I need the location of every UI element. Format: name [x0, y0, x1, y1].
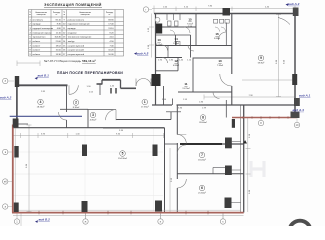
band corridor wall — [116, 119, 171, 121]
svg-text:помещение охраны: помещение охраны — [33, 32, 52, 34]
cluster wall below 13-14 — [156, 45, 232, 47]
door arc room10 — [213, 92, 220, 99]
room 5 label — [118, 151, 127, 160]
left wall vertical dim — [28, 125, 30, 213]
room7 door arc — [177, 145, 186, 154]
grid bubble left 2 — [2, 149, 7, 154]
cluster wall 14/16 divider — [195, 14, 197, 46]
room 12 label — [173, 59, 179, 67]
toilet stall walls room15 — [166, 14, 168, 21]
top wall doorway arc — [68, 85, 70, 94]
entrance lower wall — [121, 87, 137, 89]
svg-text:ж: ж — [85, 221, 87, 224]
cluster right wall — [231, 14, 233, 75]
svg-text:82.10: 82.10 — [56, 19, 62, 21]
entrance double door arcs — [136, 79, 144, 87]
room2 closet partition 2 — [115, 88, 117, 94]
svg-text:7.38м²: 7.38м² — [217, 64, 223, 67]
red left wall — [12, 125, 14, 213]
room9 interior vertical dim — [278, 14, 280, 97]
band door arc room2 — [106, 110, 117, 121]
svg-text:11.10: 11.10 — [56, 32, 62, 34]
room6 closet partition — [213, 167, 227, 169]
band wall 4/2 divider — [66, 85, 68, 112]
svg-text:21.60: 21.60 — [56, 41, 62, 43]
section cut line B — [10, 115, 82, 117]
door arc room13 — [162, 45, 168, 51]
svg-text:техническое помещение: техническое помещение — [68, 37, 93, 39]
svg-text:ПЛАН ПОСЛЕ ПЕРЕПЛАНИРОВКИ: ПЛАН ПОСЛЕ ПЕРЕПЛАНИРОВКИ — [57, 71, 123, 75]
wall between 7 and 6 — [177, 173, 243, 175]
svg-text:помещения: помещения — [37, 14, 46, 16]
band corridor right wall — [170, 112, 172, 120]
svg-text:154.30: 154.30 — [54, 37, 61, 39]
room5 inner top dim line — [103, 128, 164, 130]
svg-text:1: 1 — [144, 100, 146, 104]
band room3 left wall — [87, 109, 89, 127]
cluster shaft wall — [163, 86, 165, 105]
red wall ticks bottom — [39, 211, 208, 215]
faint grid vertical 2 — [153, 129, 155, 211]
svg-text:2: 2 — [75, 101, 77, 105]
room 6 label — [198, 185, 206, 194]
table row lines — [29, 20, 124, 22]
svg-text:торговый зал: торговый зал — [33, 36, 47, 39]
svg-text:9: 9 — [260, 56, 262, 60]
wc fixture 2 — [175, 21, 179, 26]
door arc room14 — [188, 45, 194, 51]
svg-text:помещения: помещения — [81, 14, 90, 16]
svg-text:6.88м²: 6.88м² — [173, 64, 179, 67]
band wall below 4 — [60, 108, 88, 110]
band corridor top stub — [166, 111, 181, 113]
svg-text:вид А.2: вид А.2 — [0, 96, 12, 100]
room 4 label — [37, 99, 45, 108]
room 1 label — [141, 99, 149, 108]
svg-text:г: г — [146, 9, 147, 12]
door arc room15 — [184, 27, 190, 33]
cluster wall 10 left — [192, 58, 194, 93]
cluster wall below 15 — [156, 26, 197, 28]
svg-text:18.20м²: 18.20м² — [198, 159, 206, 162]
faint floor line 3 — [14, 195, 164, 197]
room 13 label — [156, 38, 162, 46]
svg-text:вестибюль: вестибюль — [33, 19, 43, 21]
svg-text:3: 3 — [92, 113, 94, 117]
room 8 label — [199, 115, 207, 124]
room2 inner wall vertical — [99, 84, 101, 95]
grid bubble bottom 3 — [158, 219, 163, 224]
rooms 6-8 left wall — [176, 105, 178, 135]
column left wall middle — [14, 146, 18, 158]
top wall — [154, 13, 295, 15]
table outer border — [29, 10, 124, 57]
column right wall mid — [292, 74, 297, 85]
top wall right of doorway — [97, 83, 103, 85]
door arc room12 — [162, 58, 168, 64]
svg-text:12: 12 — [174, 59, 178, 63]
svg-text:рабочая комната: рабочая комната — [68, 19, 85, 21]
column room5 mid row1 right — [153, 145, 158, 157]
column top wall mid — [223, 8, 231, 16]
room9 bottom wall — [152, 104, 172, 106]
svg-text:пп: пп — [63, 14, 65, 16]
step down vertical — [120, 80, 122, 89]
column right red corner — [291, 112, 300, 119]
cluster wall below 10/11 — [178, 91, 232, 93]
column top-right corner — [293, 8, 299, 17]
svg-text:вид А.5: вид А.5 — [137, 52, 149, 56]
svg-text:8: 8 — [202, 116, 204, 120]
red bottom wall — [12, 212, 244, 214]
wall stub below room9 — [225, 100, 227, 118]
rooms right inner wall — [240, 105, 242, 213]
svg-text:№7-97-П Общая площадь 569,1: №7-97-П Общая площадь 569,16 м² — [44, 59, 96, 63]
cluster wall below 13 cells — [156, 57, 183, 59]
svg-text:7.00м²: 7.00м² — [187, 22, 193, 25]
top wall step vertical — [101, 80, 103, 85]
svg-text:вид А.4: вид А.4 — [293, 108, 305, 112]
cluster right wall lower — [231, 86, 233, 105]
svg-text:10.20: 10.20 — [108, 50, 114, 52]
room6 door arc — [177, 179, 186, 188]
wall between 8 and 7 — [165, 143, 179, 145]
room 2 label — [73, 100, 80, 109]
room 9 label — [258, 55, 265, 64]
svg-text:4.53м²: 4.53м² — [156, 43, 162, 46]
room5 top dim line — [13, 135, 164, 137]
svg-text:4: 4 — [40, 100, 42, 104]
door arc into room9 — [220, 74, 232, 86]
table header bottom line — [29, 16, 124, 18]
column rooms col3 — [225, 198, 232, 209]
svg-text:11: 11 — [184, 82, 188, 86]
column stub below red wall — [232, 119, 235, 128]
top wall upper segment — [102, 79, 121, 81]
left section top wall — [17, 84, 68, 86]
faint floor line — [14, 173, 164, 175]
room 10 label — [217, 59, 223, 67]
svg-text:1.88м²: 1.88м² — [173, 42, 179, 45]
svg-text:16: 16 — [215, 32, 219, 36]
right of rooms vertical dim — [247, 118, 249, 213]
column room5 bottom mid — [82, 201, 88, 212]
rooms 6-7 corridor vertical dim — [169, 148, 171, 212]
svg-text:9.88м²: 9.88м² — [214, 37, 220, 40]
column entrance big — [152, 74, 161, 86]
grid bubble left 4 — [2, 204, 7, 209]
cluster lower cell divider — [167, 46, 169, 58]
column left wall upper — [13, 119, 19, 128]
cluster wall 13/14 divider — [175, 35, 177, 46]
faint floor line 2 — [14, 151, 164, 153]
triangle mark — [243, 140, 247, 143]
stall door arcs room16 — [215, 27, 220, 32]
svg-text:13: 13 — [157, 38, 161, 42]
cluster left wall — [155, 14, 157, 106]
band small wall left — [15, 123, 28, 125]
room5 right wall — [164, 128, 166, 213]
svg-text:вб: вб — [4, 180, 7, 184]
svg-text:39.46м²: 39.46м² — [199, 121, 207, 124]
svg-text:ЭКСПЛИКАЦИЯ ПОМЕЩЕНИЙ: ЭКСПЛИКАЦИЯ ПОМЕЩЕНИЙ — [44, 3, 102, 7]
room2 closet partition 1 — [110, 88, 112, 94]
room 3 label — [90, 112, 97, 121]
cluster left vertical dim line — [151, 14, 153, 58]
svg-text:7: 7 — [201, 153, 203, 157]
svg-text:кладовая: кладовая — [68, 32, 77, 34]
svg-text:83.90: 83.90 — [108, 19, 114, 21]
svg-text:15.50: 15.50 — [56, 50, 62, 52]
faint watermark letter — [251, 161, 264, 177]
svg-text:15: 15 — [188, 18, 192, 22]
svg-text:59.8м²: 59.8м² — [258, 62, 265, 65]
cluster wall 14 right divider — [190, 35, 192, 58]
red left wall inner face — [14, 128, 16, 210]
svg-text:кабинет: кабинет — [33, 45, 41, 47]
stamp circle arc — [290, 221, 311, 240]
svg-text:вид Б.1: вид Б.1 — [38, 73, 50, 77]
cluster wall 12/11 divider — [177, 58, 179, 71]
faint grid vertical 1 — [84, 129, 86, 211]
svg-text:пп: пп — [29, 14, 31, 16]
cluster corridor wall — [156, 34, 191, 36]
svg-text:4.80м²: 4.80м² — [90, 119, 97, 122]
red wall ticks room9 — [243, 116, 288, 119]
column rooms col1 — [225, 138, 232, 149]
column cluster top-left — [156, 24, 162, 34]
room9 bottom dim line — [204, 96, 295, 98]
svg-text:21.60м²: 21.60м² — [198, 192, 206, 195]
svg-text:санузел женский: санузел женский — [68, 49, 85, 52]
svg-text:коридор: коридор — [68, 28, 77, 30]
door leaf in bottom wall — [172, 99, 174, 106]
svg-text:18.36м²: 18.36м² — [37, 106, 45, 109]
svg-text:подсобное помещение: подсобное помещение — [68, 24, 91, 26]
svg-text:154.30м²: 154.30м² — [118, 157, 127, 160]
column right wall lower — [294, 98, 300, 106]
svg-text:санузел мужской: санузел мужской — [68, 44, 85, 47]
column top-left of plan — [15, 76, 19, 87]
svg-text:17.35м²: 17.35м² — [141, 105, 149, 108]
svg-text:санузел мужской: санузел мужской — [68, 53, 85, 56]
sink fixtures room16 — [214, 19, 218, 23]
room8 bottom black segment — [180, 143, 222, 145]
room5 top wall — [13, 127, 165, 129]
room 11 label — [182, 82, 190, 90]
room 15 label — [187, 18, 193, 29]
room 14 label — [173, 37, 179, 45]
svg-text:тамбур: тамбур — [68, 41, 76, 43]
door arc room16 — [218, 32, 226, 40]
room 16 label — [214, 32, 220, 40]
svg-text:вид Б.2: вид Б.2 — [39, 218, 51, 222]
grid bubble cluster corner — [155, 17, 160, 22]
svg-text:кабинет: кабинет — [33, 54, 41, 56]
svg-text:13.70м²: 13.70м² — [182, 87, 190, 90]
column room5 mid row1 left — [82, 145, 87, 157]
grid bubble bottom 4 — [220, 219, 225, 224]
left outer wall grey part — [16, 85, 18, 120]
band door 4/2 — [59, 112, 67, 120]
wc fixture 1 — [168, 21, 172, 26]
grid bubble bottom 2 — [83, 219, 88, 224]
svg-text:гардероб помещения: гардероб помещения — [33, 28, 54, 30]
table column lines — [31, 10, 33, 57]
svg-text:вид А.3: вид А.3 — [288, 2, 300, 6]
room9 right dim line — [242, 79, 294, 81]
band room3 top wall — [88, 109, 116, 111]
column room5 bottom right — [155, 201, 162, 212]
svg-text:17.40: 17.40 — [108, 24, 114, 26]
right wall — [294, 14, 296, 118]
red wall room9 bottom — [232, 117, 297, 119]
svg-text:6: 6 — [201, 186, 203, 190]
svg-text:кабинет: кабинет — [33, 50, 41, 52]
fixture room14 — [177, 42, 181, 46]
grid bubble mid right 2 — [294, 122, 299, 127]
column left wall bottom corner — [14, 203, 19, 213]
svg-text:кабинет: кабинет — [33, 41, 41, 43]
corner leader line — [278, 18, 290, 25]
cluster 16 right partition — [225, 23, 227, 46]
grid circle extension lines — [3, 80, 14, 82]
svg-text:коридор: коридор — [33, 24, 42, 26]
top-left small dim line — [17, 62, 40, 64]
top dimension line — [152, 8, 295, 10]
svg-text:14.30: 14.30 — [56, 54, 62, 56]
grid bubble bottom 1 — [14, 219, 19, 224]
svg-text:13.10: 13.10 — [108, 28, 114, 30]
grid bubble mid right 1 — [258, 120, 263, 125]
cluster wall below 12 — [156, 70, 179, 72]
column tie lines — [232, 141, 241, 143]
svg-text:10.30: 10.30 — [108, 54, 114, 56]
svg-text:5: 5 — [122, 152, 124, 156]
room 7 label — [198, 152, 206, 161]
room8 door arc — [177, 135, 186, 144]
svg-text:8.30м²: 8.30м² — [73, 106, 80, 109]
grid bubble left 1 — [2, 78, 7, 83]
svg-text:14: 14 — [174, 37, 178, 41]
room10 top wall — [193, 57, 232, 59]
svg-text:10: 10 — [218, 59, 222, 63]
grid bubble top — [143, 7, 148, 12]
red bottom wall inner face — [14, 209, 241, 211]
bottom dim line — [13, 214, 244, 216]
rooms right wall — [243, 105, 245, 213]
svg-text:вид А.1: вид А.1 — [299, 93, 311, 97]
svg-text:18.52: 18.52 — [56, 45, 62, 47]
column rooms col2 — [225, 166, 232, 176]
grid bubble left 3 — [2, 179, 7, 184]
